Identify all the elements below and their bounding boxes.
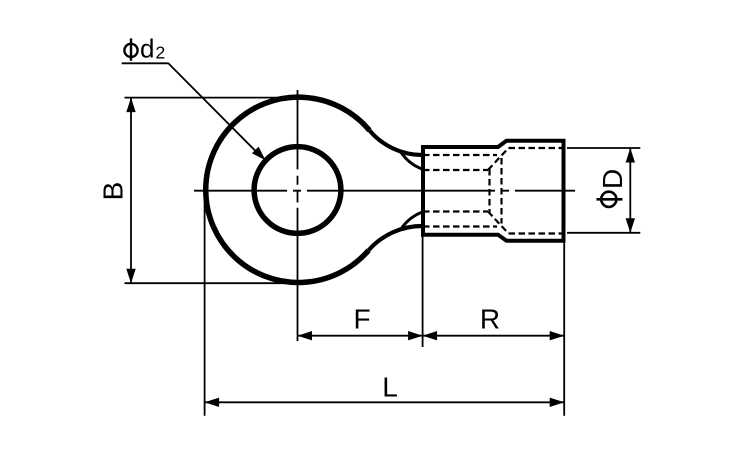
hidden dashed: wire hole bottom [423, 210, 488, 212]
left extension for L [204, 186, 206, 416]
dim L arrow right [550, 398, 565, 407]
neck fillet bottom [369, 226, 423, 250]
dim B line [130, 98, 132, 284]
label phiD: phi symbol [597, 192, 623, 207]
dim R arrow right [550, 331, 565, 340]
vertical centerline [297, 90, 299, 341]
dim R line [423, 335, 565, 337]
hidden dashed: insulation step vertical [500, 158, 502, 224]
hidden dashed: wire hole top [423, 169, 488, 171]
dim B arrow down [126, 269, 135, 284]
hidden dashed: insulation inner wall top-left [423, 154, 497, 156]
label phi-d2: phi symbol [124, 38, 137, 60]
leader phi-d2 arrowhead [252, 147, 269, 164]
dim B extension bottom [125, 282, 306, 284]
hidden dashed: flare diagonal top [488, 148, 509, 170]
neck fillet top [369, 130, 422, 155]
svg-text:R: R [480, 304, 500, 335]
svg-text:2: 2 [156, 42, 166, 62]
dim F line [298, 335, 423, 337]
dim F arrow left [298, 331, 313, 340]
svg-text:B: B [97, 182, 128, 201]
hidden dashed: right section inner wall bottom [509, 232, 564, 234]
right extension for L and R [563, 242, 565, 416]
dim phiD arrow down [626, 218, 635, 233]
horizontal centerline [194, 190, 575, 192]
hidden dashed: flare diagonal bottom [488, 212, 509, 234]
hidden dashed: right section inner wall top [509, 147, 564, 149]
dim phiD extension top [567, 147, 640, 149]
insulation curl arc bottom [401, 212, 423, 229]
hidden dashed: insulation inner wall bottom-left [423, 225, 497, 227]
svg-text:d: d [140, 34, 154, 64]
barrel left extension line [422, 236, 424, 347]
svg-text:F: F [353, 303, 370, 334]
dim L arrow left [205, 398, 220, 407]
ring inner circle (stud hole) [254, 147, 341, 234]
dim phiD arrow up [626, 148, 635, 163]
dim B arrow up [126, 98, 135, 113]
hidden dashed: barrel end vertical [488, 169, 490, 213]
leader phi-d2 underline [122, 63, 262, 157]
svg-text:L: L [382, 371, 398, 402]
dim L line [205, 401, 565, 403]
dim R arrow left [423, 331, 438, 340]
dim B extension top [125, 97, 304, 99]
svg-text:D: D [597, 169, 628, 189]
dim phiD line [629, 148, 631, 233]
barrel outline [423, 141, 564, 241]
dim phiD extension bottom [567, 232, 640, 234]
ring outer circle arc [206, 97, 370, 282]
dim F arrow right [408, 331, 423, 340]
insulation curl arc top [401, 152, 423, 169]
